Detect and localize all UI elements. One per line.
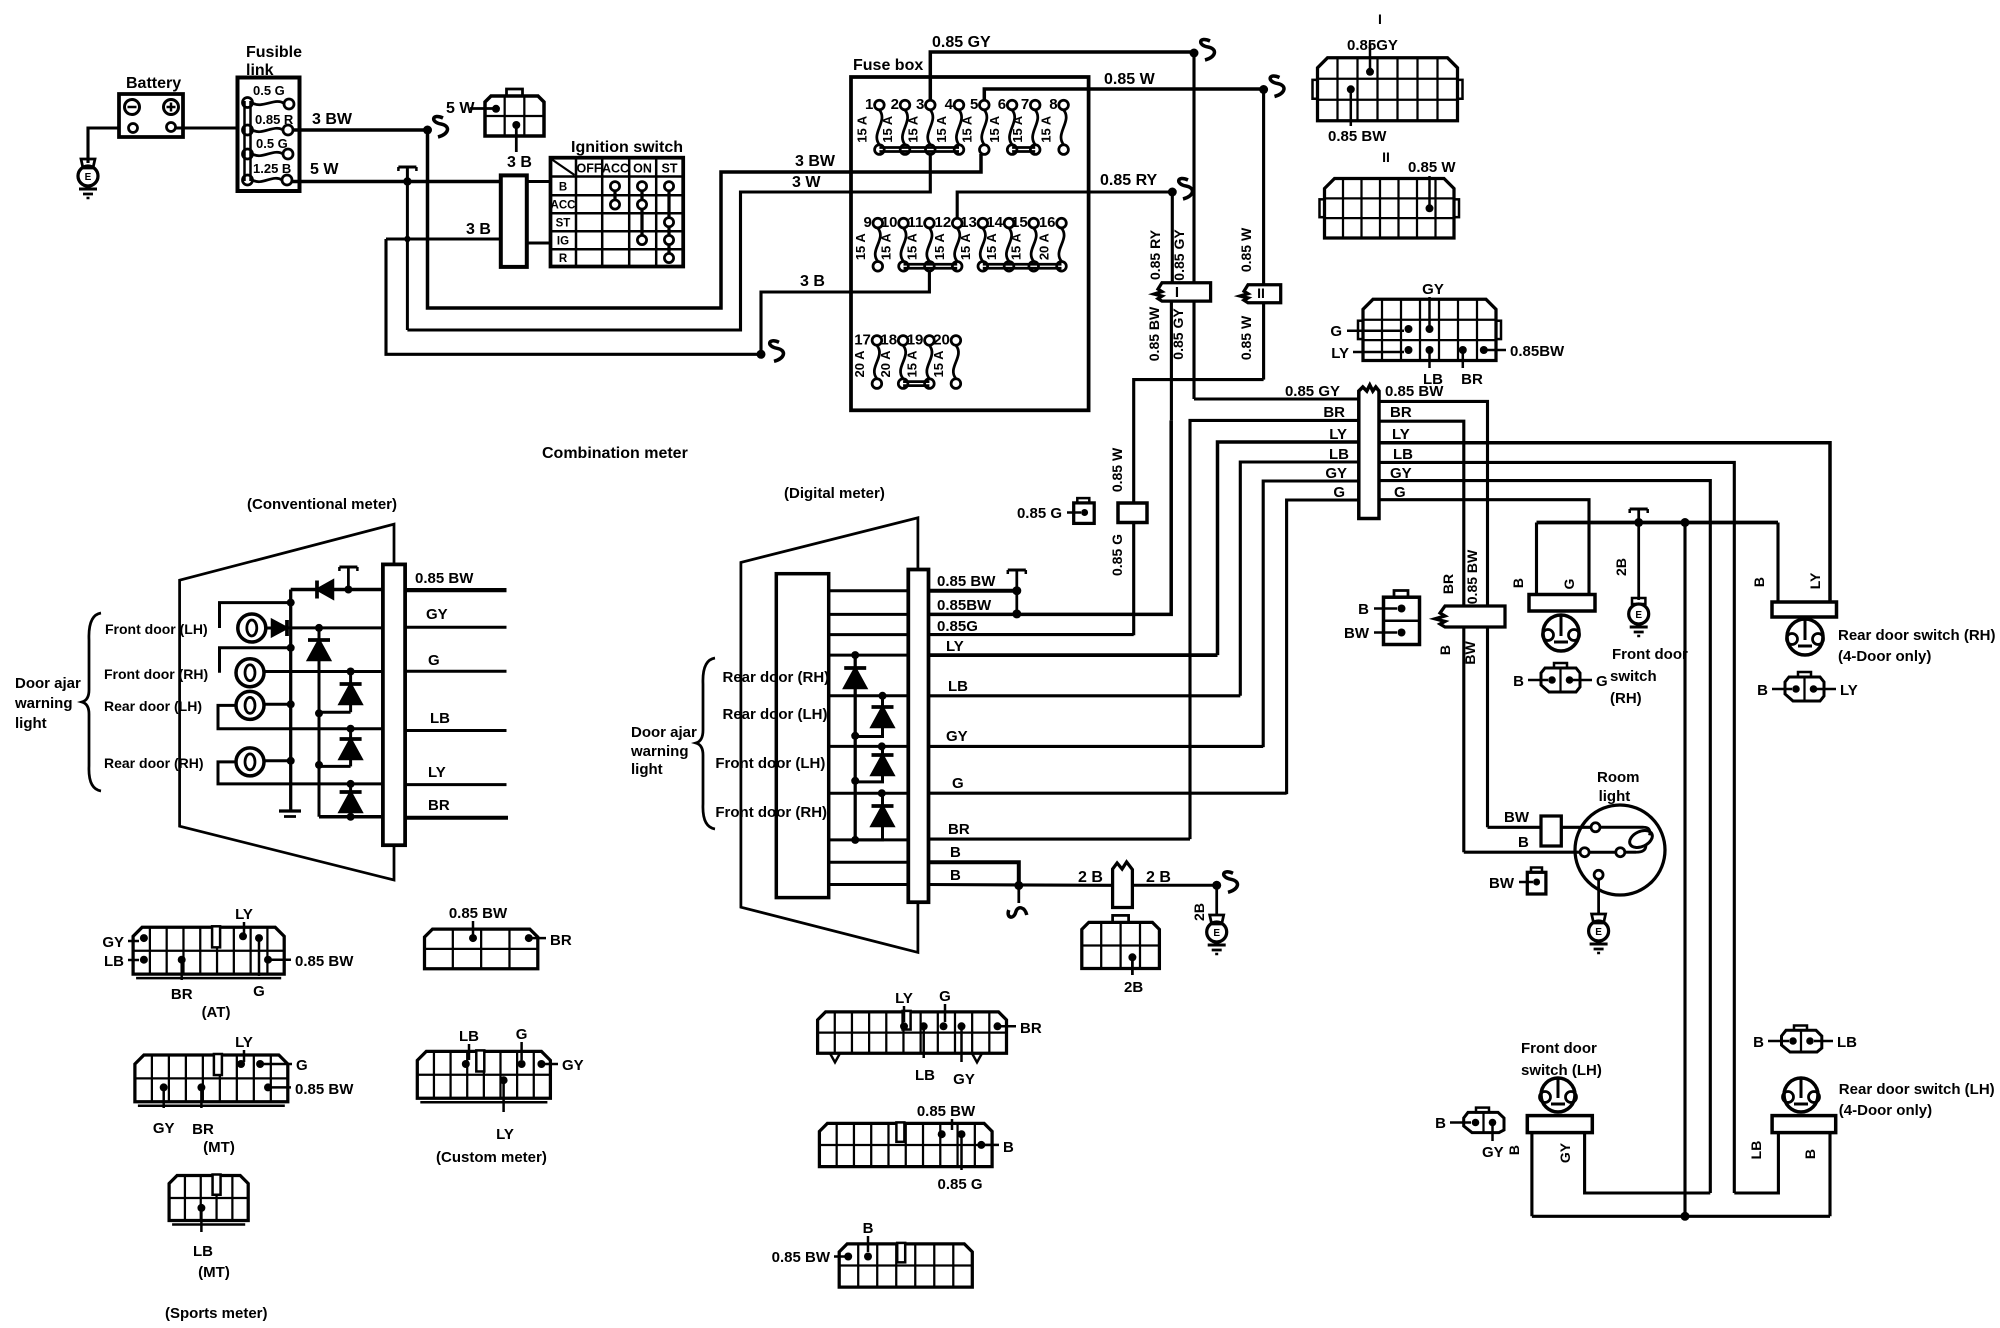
inline connector 0.85W to 0.85G [1118, 503, 1147, 523]
svg-text:G: G [1394, 484, 1406, 501]
svg-text:B: B [1757, 682, 1768, 699]
connector 5W 3B [485, 96, 544, 136]
wire 3B to fuse11 [851, 271, 929, 292]
svg-text:0.85 W: 0.85 W [1408, 159, 1456, 176]
svg-text:light: light [1599, 788, 1631, 805]
connector I illustration pin 0.85GY [1369, 45, 1372, 72]
ignition switch table [551, 158, 684, 267]
wire B1 out [929, 862, 1019, 885]
bus wire LB right [1379, 462, 1734, 1193]
digital diode D4 [878, 789, 886, 797]
fuse busbar 13-16 [983, 263, 1062, 266]
svg-text:GY: GY [426, 606, 448, 623]
connector meterA [818, 1012, 1007, 1053]
connector B LB 2pin [1782, 1030, 1822, 1052]
svg-text:B: B [1753, 1034, 1764, 1051]
svg-text:2 B: 2 B [1146, 869, 1171, 886]
svg-text:BR: BR [171, 986, 193, 1003]
wire 3W loop [407, 192, 851, 330]
svg-text:0.85 BW: 0.85 BW [449, 905, 508, 922]
wire 0.85BW1 out [929, 589, 1017, 593]
lamp front door LH bracket [220, 603, 291, 628]
svg-text:Front door: Front door [1521, 1040, 1597, 1057]
svg-text:3 BW: 3 BW [312, 111, 353, 128]
svg-text:B: B [1510, 578, 1526, 588]
connector break 2B [1224, 872, 1238, 892]
svg-text:0.85BW: 0.85BW [937, 597, 992, 614]
splice T B rail [1630, 507, 1648, 510]
bus wire BR right [1379, 421, 1464, 606]
fuses 1-8 [875, 100, 885, 110]
svg-text:GY: GY [1422, 281, 1444, 298]
junction B down [1681, 518, 1690, 527]
wire GY conventional [287, 626, 383, 629]
svg-text:Front door (RH): Front door (RH) [104, 666, 208, 682]
svg-text:0.85 BW: 0.85 BW [1385, 383, 1444, 400]
connector meterB label B [977, 1141, 985, 1149]
ignition switch connector bar [501, 175, 527, 267]
connector II illustration [1325, 179, 1455, 239]
svg-text:2B: 2B [1191, 903, 1207, 921]
digital diode V1 [851, 651, 859, 659]
junction bottom B rail [1681, 1212, 1690, 1221]
room light switch box [1541, 816, 1561, 846]
svg-text:Rear door (LH): Rear door (LH) [723, 706, 828, 723]
wire 2B gnd right [1637, 523, 1640, 601]
svg-text:(4-Door only): (4-Door only) [1839, 1102, 1932, 1119]
svg-text:GY: GY [102, 934, 124, 951]
wire 0.85W jog left [1134, 380, 1264, 503]
svg-text:11: 11 [908, 214, 924, 231]
svg-text:LB: LB [915, 1067, 935, 1084]
svg-text:15: 15 [1011, 214, 1028, 231]
lamp rear door LH leads [264, 703, 291, 706]
conventional meter connector bar [383, 564, 405, 845]
svg-text:12: 12 [935, 214, 952, 231]
svg-text:ST: ST [556, 218, 571, 230]
svg-text:LB: LB [430, 710, 450, 727]
svg-text:0.85 G: 0.85 G [937, 1176, 982, 1193]
svg-text:17: 17 [854, 331, 871, 348]
svg-text:BR: BR [1390, 404, 1412, 421]
svg-text:15 A: 15 A [931, 350, 946, 378]
svg-text:Front door (LH): Front door (LH) [105, 621, 208, 637]
meter harness connector label LB [1426, 346, 1434, 354]
svg-text:0.85BW: 0.85BW [1510, 343, 1565, 360]
svg-text:15 A: 15 A [854, 115, 869, 143]
svg-text:GY: GY [1557, 1142, 1573, 1163]
svg-text:B: B [559, 182, 567, 194]
bus wire LY left [1218, 442, 1359, 655]
svg-text:0.85GY: 0.85GY [1347, 37, 1398, 54]
digital diode D1 [844, 666, 866, 670]
connector meterA label GY [958, 1022, 966, 1030]
wire 3B loop [386, 239, 761, 354]
svg-text:B: B [1513, 673, 1524, 690]
svg-text:LB: LB [1393, 446, 1413, 463]
connector I illustration pin 0.85BW [1347, 85, 1355, 93]
svg-text:0.85 G: 0.85 G [1109, 534, 1125, 576]
junction 3B riser [404, 236, 410, 242]
fusible link fuse 0.5G a [243, 98, 253, 108]
wire 0.85RY down [1171, 192, 1174, 283]
wire 0.85BW2 out [929, 420, 1172, 614]
svg-text:LY: LY [1331, 345, 1349, 362]
svg-text:light: light [15, 715, 47, 732]
svg-text:15 A: 15 A [1009, 233, 1024, 261]
svg-text:15 A: 15 A [853, 233, 868, 261]
wire 0.85RY from fuse12 [957, 192, 1172, 218]
svg-text:B: B [950, 844, 961, 861]
svg-text:GY: GY [953, 1071, 975, 1088]
junction B rail gnd [1634, 518, 1643, 527]
wire 3B to ignition bar [386, 237, 501, 240]
svg-text:G: G [516, 1026, 528, 1043]
svg-text:B: B [1518, 834, 1529, 851]
svg-text:16: 16 [1039, 214, 1056, 231]
door ajar warning brace conventional [82, 613, 101, 791]
svg-text:LY: LY [235, 906, 253, 923]
svg-text:BR: BR [1020, 1020, 1042, 1037]
conventional wire GY out [405, 626, 506, 629]
svg-text:20 A: 20 A [878, 350, 893, 378]
svg-text:3: 3 [916, 96, 924, 113]
svg-text:Fusible: Fusible [246, 44, 302, 61]
svg-text:Front door: Front door [1612, 646, 1688, 663]
splice T 5W [398, 165, 416, 168]
svg-text:0.85 BW: 0.85 BW [937, 573, 996, 590]
svg-text:GY: GY [946, 728, 968, 745]
junction 0.85W [1259, 85, 1268, 94]
svg-text:15 A: 15 A [987, 115, 1002, 143]
svg-text:BR: BR [948, 821, 970, 838]
fuse busbar 18-19 [903, 380, 929, 383]
svg-text:B: B [1003, 1139, 1014, 1156]
wire 2B down [1215, 885, 1218, 914]
svg-text:0.85G: 0.85G [937, 618, 978, 635]
connector break 0.85GY [1201, 40, 1215, 60]
svg-text:(Sports meter): (Sports meter) [165, 1305, 268, 1322]
connector Custom [417, 1051, 550, 1098]
connector MT label G [256, 1060, 264, 1068]
rear door switch LH [1772, 1116, 1836, 1133]
svg-text:15 A: 15 A [1039, 115, 1054, 143]
svg-text:LB: LB [948, 678, 968, 695]
svg-text:3 W: 3 W [792, 174, 821, 191]
svg-text:Combination meter: Combination meter [542, 445, 688, 462]
rear door switch RH [1776, 523, 1779, 603]
connector BR BW wavy [1435, 606, 1505, 627]
connector Custom label GY [537, 1060, 545, 1068]
svg-text:LY: LY [1807, 572, 1823, 589]
svg-text:15 A: 15 A [959, 115, 974, 143]
svg-text:ON: ON [633, 162, 652, 176]
svg-text:Rear door switch (RH): Rear door switch (RH) [1838, 627, 1996, 644]
connector B BW 2pin [1384, 597, 1420, 644]
svg-text:BW: BW [1462, 641, 1478, 665]
front door switch LH legs [1530, 1133, 1533, 1217]
connector BW BR 8cell [425, 929, 538, 969]
connector meterB label 0.85G [958, 1130, 966, 1138]
connector meterC label 0.85BW [844, 1253, 852, 1261]
svg-text:Rear door (RH): Rear door (RH) [723, 669, 830, 686]
bus wire BR left [1190, 420, 1359, 839]
svg-text:0.85 R: 0.85 R [255, 112, 294, 127]
splice T conventional BW [339, 565, 357, 568]
lamp front door RH [236, 659, 264, 687]
wire 3W to fuse3 [851, 155, 930, 193]
svg-text:Battery: Battery [126, 75, 181, 92]
room light wire BW [1488, 826, 1542, 829]
svg-text:20: 20 [933, 331, 950, 348]
ground E room light [1592, 914, 1606, 923]
svg-text:E: E [85, 172, 92, 183]
front door switch RH [1535, 523, 1538, 595]
svg-text:G: G [253, 983, 265, 1000]
connector MT label 0.85BW [264, 1083, 272, 1091]
connector B G 2pin [1541, 668, 1580, 692]
svg-text:G: G [428, 652, 440, 669]
svg-text:B: B [1802, 1149, 1818, 1159]
rear door switch LH leg B [1828, 1133, 1831, 1217]
svg-text:15 A: 15 A [879, 233, 894, 261]
connector BW BR label BR [525, 934, 533, 942]
svg-text:Front door (RH): Front door (RH) [715, 804, 827, 821]
svg-text:0.85 G: 0.85 G [1017, 505, 1062, 522]
ground E battery [81, 159, 95, 168]
svg-text:0.85 W: 0.85 W [1104, 71, 1156, 88]
fuse busbar 1-4 [879, 146, 959, 149]
wire GY out [929, 745, 1264, 748]
svg-text:15 A: 15 A [904, 233, 919, 261]
junction 2B [1212, 881, 1221, 890]
svg-text:(MT): (MT) [203, 1139, 235, 1156]
svg-text:19: 19 [907, 331, 924, 348]
svg-text:LY: LY [496, 1126, 514, 1143]
svg-text:R: R [559, 253, 568, 265]
svg-text:20 A: 20 A [1037, 233, 1052, 261]
wire 0.85W down [1262, 90, 1265, 285]
wire BR out [929, 838, 1191, 841]
connector Custom label LY [500, 1076, 508, 1084]
svg-text:2B: 2B [1613, 558, 1629, 576]
svg-text:BR: BR [192, 1121, 214, 1138]
connector 5W 3B pin 3B [512, 121, 520, 129]
connector II [1240, 285, 1281, 303]
connector Sports [169, 1176, 248, 1221]
svg-text:switch: switch [1610, 668, 1657, 685]
svg-text:G: G [939, 988, 951, 1005]
svg-text:3 B: 3 B [800, 273, 825, 290]
svg-text:0.85 BW: 0.85 BW [1464, 549, 1480, 604]
svg-text:B: B [1435, 1115, 1446, 1132]
fusible link fuse 0.5G b [243, 149, 253, 159]
break below B junction [1017, 886, 1020, 904]
room light wire B [1464, 851, 1580, 854]
wire G conventional [264, 670, 383, 673]
wire 3BW to fuse5 [851, 154, 981, 172]
svg-text:LB: LB [459, 1028, 479, 1045]
digital diode D2 [879, 692, 887, 700]
wire bar to table IG [527, 241, 551, 244]
conventional wire BR out [405, 816, 508, 820]
fuse box outline [851, 77, 1089, 410]
room light lamp [1600, 826, 1644, 829]
junction 3B [757, 350, 766, 359]
svg-text:B: B [1358, 601, 1369, 618]
wire 3BW loop down [428, 130, 852, 308]
svg-text:BW: BW [1504, 809, 1530, 826]
digital diode D3 [878, 742, 886, 750]
svg-text:Rear door (RH): Rear door (RH) [104, 755, 204, 771]
bus wire GY left [1263, 481, 1359, 747]
svg-text:20 A: 20 A [852, 350, 867, 378]
svg-text:warning: warning [630, 743, 689, 760]
connector AT label G [255, 934, 263, 942]
diode column V1 conventional [318, 628, 321, 817]
svg-text:(MT): (MT) [198, 1264, 230, 1281]
connector MT label BR [197, 1083, 205, 1091]
ignition switch contacts [613, 191, 616, 200]
svg-text:0.85 GY: 0.85 GY [1285, 383, 1340, 400]
fusible link bus [243, 101, 246, 181]
room light ground wire [1597, 879, 1600, 915]
svg-text:0.85 BW: 0.85 BW [415, 570, 474, 587]
connector meterA label LB [920, 1022, 928, 1030]
svg-text:LB: LB [1329, 446, 1349, 463]
bus wire LY right [1379, 443, 1830, 602]
wire 5W [291, 180, 501, 184]
svg-text:switch (LH): switch (LH) [1521, 1062, 1602, 1079]
connector I illustration [1318, 58, 1458, 121]
wire 0.85GY down [1192, 53, 1195, 283]
conventional wire LB out [405, 729, 506, 732]
svg-text:BR: BR [428, 797, 450, 814]
diode D4 conventional [349, 672, 352, 713]
svg-text:3 B: 3 B [466, 221, 491, 238]
diode D3 conventional [308, 638, 330, 642]
svg-text:E: E [1595, 927, 1602, 938]
svg-text:BW: BW [1344, 625, 1370, 642]
svg-text:(Digital meter): (Digital meter) [784, 485, 885, 502]
wire 3BW [293, 128, 428, 132]
connector I [1154, 283, 1211, 301]
conventional meter rail [289, 590, 292, 812]
connector meterC [839, 1244, 972, 1287]
svg-text:LY: LY [1329, 426, 1347, 443]
front door switch LH [1527, 1116, 1592, 1133]
svg-text:15 A: 15 A [1010, 115, 1025, 143]
svg-text:Door ajar: Door ajar [631, 724, 697, 741]
B rail [1537, 521, 1779, 525]
junction 0.85GY [1190, 49, 1199, 58]
svg-text:BR: BR [1461, 371, 1483, 388]
svg-text:0.5 G: 0.5 G [253, 83, 285, 98]
connector MT label GY [160, 1083, 168, 1091]
svg-text:ST: ST [662, 162, 678, 176]
svg-text:GY: GY [153, 1120, 175, 1137]
svg-text:2: 2 [891, 96, 899, 113]
svg-text:0.85 W: 0.85 W [1109, 447, 1125, 492]
svg-text:Fuse box: Fuse box [853, 57, 923, 74]
svg-text:0.85 BW: 0.85 BW [295, 1081, 354, 1098]
svg-text:GY: GY [1325, 465, 1347, 482]
wire battery positive to fusible link [176, 126, 238, 129]
svg-text:0.85 BW: 0.85 BW [917, 1103, 976, 1120]
svg-text:4: 4 [945, 96, 954, 113]
conventional meter rail ground [279, 809, 301, 812]
diode D1 conventional [317, 581, 333, 599]
svg-text:0.85 RY: 0.85 RY [1100, 172, 1158, 189]
svg-text:B: B [863, 1220, 874, 1237]
connector B GY 2pin [1464, 1112, 1504, 1132]
connector Sports label LB [197, 1204, 205, 1212]
svg-text:0.5 G: 0.5 G [256, 136, 288, 151]
svg-text:BR: BR [1323, 404, 1345, 421]
svg-text:9: 9 [863, 214, 871, 231]
conventional wire G out [405, 670, 506, 673]
svg-text:BR: BR [1440, 574, 1456, 594]
connector break 3BW [434, 117, 448, 137]
svg-text:(AT): (AT) [202, 1004, 231, 1021]
svg-text:15 A: 15 A [932, 233, 947, 261]
room light [1575, 805, 1665, 895]
splice T digital BW [1008, 568, 1026, 571]
svg-text:B: B [1437, 645, 1453, 655]
svg-text:B: B [950, 867, 961, 884]
svg-text:Room: Room [1597, 769, 1640, 786]
fusible link fuse 1.25B [243, 175, 253, 185]
svg-text:IG: IG [557, 236, 569, 248]
junction 3BW [423, 126, 432, 135]
digital meter internal wires [829, 589, 909, 592]
connector MT [135, 1055, 288, 1102]
svg-text:light: light [631, 761, 663, 778]
bottom B rail [1532, 1215, 1830, 1218]
wire bar to table B [527, 180, 551, 183]
wire LB jog to rear door switch LH [1734, 1133, 1778, 1193]
bus wire G right [1379, 500, 1589, 595]
svg-text:Door ajar: Door ajar [15, 675, 81, 692]
wire LY out [929, 653, 1218, 657]
room light contact E [1594, 870, 1603, 879]
bus wire 0.85GY left [1194, 397, 1359, 400]
bus connector bar [1359, 385, 1379, 519]
door ajar warning brace digital [696, 658, 715, 829]
connector break 0.85W [1270, 76, 1284, 96]
diode lamp1 [266, 627, 272, 630]
svg-text:3 B: 3 B [507, 154, 532, 171]
lamp front door RH bracket [220, 648, 291, 673]
junction 0.85RY [1168, 188, 1177, 197]
svg-text:GY: GY [562, 1057, 584, 1074]
svg-text:18: 18 [880, 331, 897, 348]
svg-text:G: G [952, 775, 964, 792]
svg-text:LY: LY [1392, 426, 1410, 443]
svg-text:GY: GY [1390, 465, 1412, 482]
svg-text:5: 5 [970, 96, 978, 113]
wire 0.85G out [929, 633, 1134, 636]
connector break 3B [770, 341, 784, 361]
svg-text:E: E [1635, 610, 1642, 621]
pigtail connector BW [1527, 872, 1546, 894]
connector meterA label BR [994, 1022, 1002, 1030]
svg-text:0.85 RY: 0.85 RY [1147, 229, 1163, 280]
svg-text:II: II [1257, 285, 1265, 301]
svg-text:8: 8 [1049, 96, 1057, 113]
wire battery negative to ground [88, 128, 119, 163]
svg-text:1.25 B: 1.25 B [253, 161, 291, 176]
